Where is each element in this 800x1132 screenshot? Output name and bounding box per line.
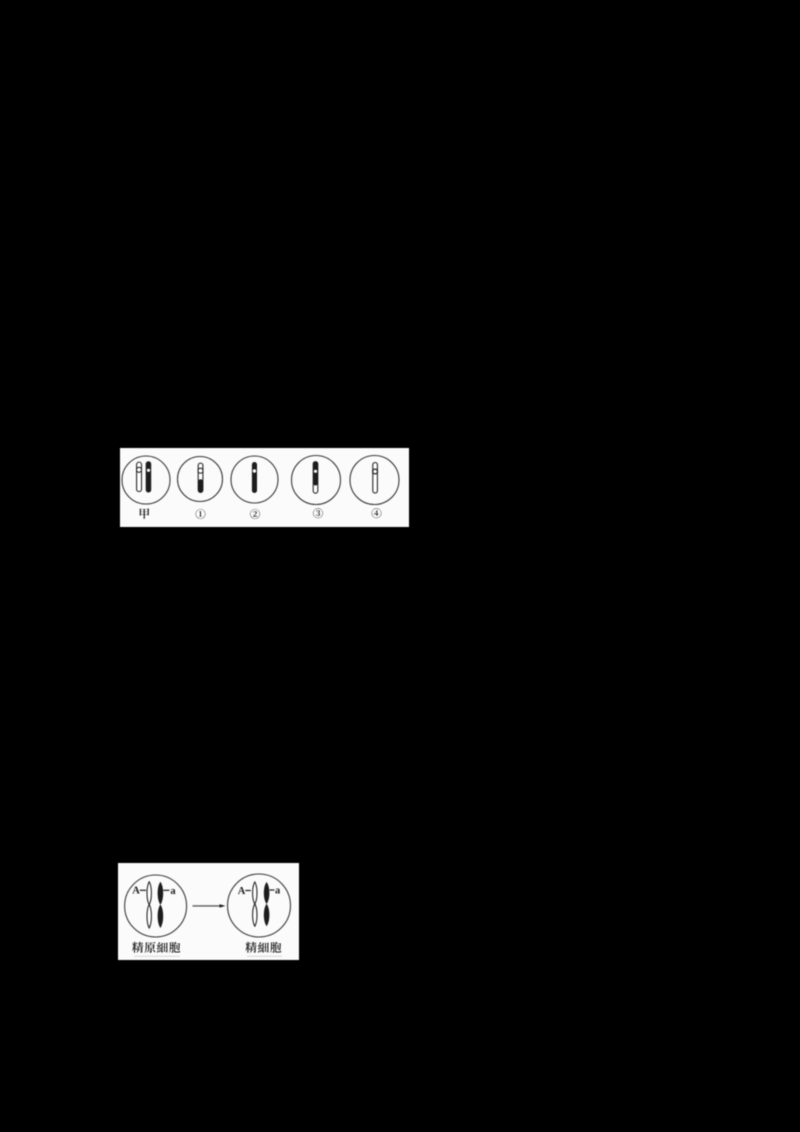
black chromosome a (right cell) <box>264 882 270 926</box>
faint artifact under right caption <box>247 956 282 957</box>
figure panel: spermatogonium to spermatid <box>118 863 299 960</box>
cell circle spermatogonium <box>125 875 187 937</box>
svg-text:A: A <box>238 886 246 897</box>
black chromosome a (left cell) <box>158 882 164 928</box>
leader line a (left cell) <box>163 889 169 891</box>
cell circle 3 <box>292 456 341 505</box>
svg-text:a: a <box>170 886 176 897</box>
cell circle 甲 <box>122 456 170 504</box>
label circled 2 <box>250 509 260 519</box>
black chromosome in 甲 <box>146 461 152 492</box>
label circled 3 <box>313 508 323 518</box>
leader line A (right cell) <box>245 890 251 892</box>
white chromosome A (right cell) <box>253 882 257 926</box>
black chromosome in cell 2 <box>252 462 257 493</box>
arrow <box>193 904 226 907</box>
white chromosome in 甲 <box>137 462 142 492</box>
cell circle spermatid <box>228 874 291 937</box>
white chromosome in cell 4 <box>373 463 378 494</box>
caption 精细胞 (right) <box>246 942 282 953</box>
label circled 1 <box>196 509 206 519</box>
svg-text:A: A <box>132 886 140 897</box>
chromosome in cell 3 (black top, white tip) <box>313 462 318 494</box>
cell circle 2 <box>231 456 278 503</box>
faint artifact under left caption <box>134 956 180 957</box>
white chromosome A (left cell) <box>147 882 151 928</box>
figure panel: five cells 甲 and 1-4 <box>120 448 409 527</box>
svg-text:a: a <box>275 886 281 897</box>
cell circle 4 <box>350 456 399 505</box>
label circled 4 <box>372 508 382 518</box>
leader line A (left cell) <box>140 889 146 891</box>
label 甲 <box>140 508 149 519</box>
chromosome in cell 1 (white top, black bottom) <box>198 463 203 492</box>
caption 精原细胞 (left) <box>132 942 180 953</box>
cell circle 1 <box>178 457 223 502</box>
leader line a (right cell) <box>270 889 275 891</box>
